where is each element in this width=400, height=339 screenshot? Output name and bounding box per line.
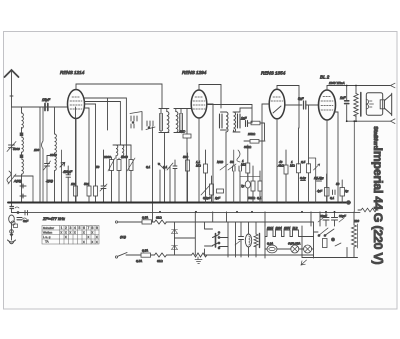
svg-text:BL2: BL2 <box>293 226 298 230</box>
coil L5 <box>116 145 118 158</box>
svg-text:130V 27mA: 130V 27mA <box>329 81 345 85</box>
svg-text:50kΩ: 50kΩ <box>248 196 256 200</box>
value labels texture <box>13 132 359 263</box>
tube V4 BL2 <box>319 75 345 121</box>
power line N <box>115 249 313 264</box>
svg-text:0,5: 0,5 <box>301 160 306 164</box>
trimmer antenna <box>7 142 16 152</box>
svg-text:61Ω: 61Ω <box>157 259 163 263</box>
svg-text:30kΩ: 30kΩ <box>244 145 252 149</box>
svg-text:ZF=477 kHz: ZF=477 kHz <box>42 216 65 221</box>
capacitor 400pF <box>63 166 73 203</box>
svg-text:0,5A: 0,5A <box>136 259 142 263</box>
output transformer T2 <box>354 86 361 122</box>
capacitor 15pF <box>42 98 51 111</box>
coil L4 <box>55 156 57 203</box>
wire V1 anode lines <box>85 107 90 109</box>
ground bus <box>8 202 350 204</box>
switch mains s2 <box>318 228 334 236</box>
svg-text:RENS 1294: RENS 1294 <box>182 70 207 75</box>
svg-text:4μF: 4μF <box>317 189 322 193</box>
resistor R6 <box>127 145 135 203</box>
svg-text:100: 100 <box>71 182 76 186</box>
switch arrow <box>167 163 173 203</box>
misc mid-low resistors <box>204 145 250 203</box>
voltage selector S3 <box>205 212 236 257</box>
svg-text:6: 6 <box>83 226 85 230</box>
resistor R7 <box>186 153 190 203</box>
svg-text:x: x <box>92 231 94 235</box>
wire <box>107 98 109 130</box>
svg-text:0,1μ: 0,1μ <box>300 176 306 180</box>
wire V3 cathode <box>276 119 278 203</box>
wire top to speaker <box>391 83 396 88</box>
svg-text:220: 220 <box>353 219 359 223</box>
svg-text:NSB: NSB <box>217 160 223 164</box>
svg-text:0,1: 0,1 <box>146 165 151 169</box>
wire V3 left <box>262 104 269 203</box>
svg-text:100: 100 <box>34 148 39 152</box>
svg-text:5000: 5000 <box>13 147 20 151</box>
svg-text:15pF: 15pF <box>42 98 51 102</box>
trimmer C8 <box>100 150 107 203</box>
wire V1 grid cap to IFT1 <box>76 84 162 109</box>
electrolytic 32uF a <box>318 212 329 226</box>
svg-text:1294: 1294 <box>276 226 283 230</box>
svg-text:Staßfurt: Staßfurt <box>372 126 378 148</box>
svg-text:L u. g: L u. g <box>43 235 51 239</box>
svg-text:0,1: 0,1 <box>163 165 168 169</box>
coil L2b <box>22 159 24 203</box>
svg-text:x: x <box>83 240 85 244</box>
capacitor 3nF <box>17 218 28 224</box>
resistor 30k <box>244 140 265 144</box>
loudspeaker LS <box>366 93 391 116</box>
wire V2 anode <box>207 104 213 203</box>
svg-text:Imperial 44 G (220 V): Imperial 44 G (220 V) <box>371 148 385 265</box>
tube V1 RENS1214 <box>60 70 85 119</box>
lamp small <box>11 221 15 225</box>
trimmer C2 <box>44 156 55 203</box>
svg-text:0,1: 0,1 <box>330 196 335 200</box>
line filter caps <box>172 222 178 255</box>
svg-text:1214: 1214 <box>267 226 274 230</box>
arrow mark <box>301 260 307 265</box>
power line L <box>115 216 313 225</box>
resistor R4 <box>108 157 115 203</box>
coupling square a <box>20 133 24 137</box>
switch table <box>42 226 99 245</box>
switch A(Sk) <box>7 171 22 184</box>
svg-text:Schalter: Schalter <box>43 226 54 230</box>
wire V3 grid cap <box>277 86 299 129</box>
ground E <box>8 223 16 244</box>
coil L2 <box>22 137 24 155</box>
wire anode loop b <box>85 102 121 146</box>
below bus left: capacitor 1nF <box>10 203 19 213</box>
capacitor selector <box>235 222 244 257</box>
svg-text:7μ: 7μ <box>241 184 245 188</box>
resistor selector <box>254 222 260 257</box>
svg-text:6V/0,35A: 6V/0,35A <box>288 242 300 246</box>
capacitor 5nF <box>298 97 319 109</box>
svg-text:x: x <box>92 240 94 244</box>
svg-text:400pF: 400pF <box>63 170 73 174</box>
dial lamp 1 <box>277 242 300 254</box>
resistor bottom <box>323 238 342 248</box>
right block resistors <box>284 105 350 204</box>
svg-text:3000: 3000 <box>50 153 57 157</box>
svg-text:61Ω: 61Ω <box>156 216 162 220</box>
antenna <box>5 70 19 107</box>
wire row <box>14 175 33 177</box>
svg-text:1: 1 <box>61 226 63 230</box>
IF transformer IFT1 <box>159 109 192 203</box>
svg-text:MΩ: MΩ <box>290 164 295 168</box>
svg-text:0,1: 0,1 <box>257 196 262 200</box>
wire V4 anode top <box>327 86 390 91</box>
resistor R5 <box>117 158 121 202</box>
junction dots on bus <box>11 85 357 213</box>
svg-text:x: x <box>70 231 72 235</box>
svg-text:32μF: 32μF <box>320 214 327 218</box>
wire from bus to mains <box>152 203 154 223</box>
capacitor 1nF output <box>340 86 349 122</box>
svg-text:20kΩ: 20kΩ <box>247 132 256 136</box>
svg-text:8: 8 <box>92 226 94 230</box>
svg-text:50: 50 <box>230 160 234 164</box>
svg-text:0,1μF: 0,1μF <box>203 196 211 200</box>
wire <box>32 176 34 203</box>
wire V4 cathode <box>326 120 328 203</box>
svg-text:AbΩ: AbΩ <box>277 164 285 168</box>
resistor earth R-mains <box>192 253 208 264</box>
field coil <box>245 222 251 257</box>
wire bottom speaker rail <box>347 119 395 212</box>
tube V2 RENS1294 <box>182 70 207 118</box>
dial lamp 2 <box>299 245 314 253</box>
fuse 0.3A <box>265 242 277 253</box>
svg-text:0,3A: 0,3A <box>267 242 273 246</box>
coil L3 <box>55 107 57 156</box>
resistor AVO <box>178 130 191 203</box>
resistor R3 <box>85 104 98 203</box>
electrolytic 32uF b <box>332 212 345 226</box>
terminal <box>10 230 14 234</box>
svg-text:x: x <box>74 231 76 235</box>
svg-text:x: x <box>65 231 67 235</box>
svg-text:AVO: AVO <box>178 130 186 134</box>
heater chain <box>265 222 318 258</box>
svg-text:5000: 5000 <box>121 155 128 159</box>
svg-text:A(Sk): A(Sk) <box>13 179 22 183</box>
resistor R1 <box>74 107 78 203</box>
wire V1 cathode down <box>75 119 77 203</box>
svg-text:7: 7 <box>88 226 90 230</box>
svg-text:2μ: 2μ <box>344 189 349 193</box>
wire AVO <box>186 109 188 135</box>
svg-text:(3Ω): (3Ω) <box>120 235 126 239</box>
capacitor 1nF <box>241 117 248 127</box>
dropper resistor <box>352 212 358 258</box>
bottom rail <box>302 257 358 259</box>
antenna coil L1 <box>12 107 24 203</box>
svg-text:9: 9 <box>96 226 98 230</box>
resistor hum <box>358 208 378 212</box>
svg-text:x: x <box>88 235 90 239</box>
svg-text:3nF: 3nF <box>23 219 28 223</box>
svg-text:3: 3 <box>70 226 72 230</box>
wire V4 screen <box>334 112 338 203</box>
capacitor link <box>12 211 28 216</box>
svg-text:4: 4 <box>74 226 76 230</box>
svg-text:5: 5 <box>79 226 81 230</box>
coil L6 <box>122 145 124 158</box>
wire with tap arrow <box>60 150 65 203</box>
svg-text:3000: 3000 <box>104 155 111 159</box>
svg-text:x: x <box>65 235 67 239</box>
svg-text:x: x <box>83 231 85 235</box>
svg-text:32μF: 32μF <box>339 214 346 218</box>
svg-text:x: x <box>61 231 63 235</box>
svg-text:MΩ: MΩ <box>196 164 201 168</box>
svg-text:1(1,5)μ: 1(1,5)μ <box>314 176 324 180</box>
heater line <box>27 211 361 213</box>
wire coil bar <box>113 144 131 146</box>
IF transformer IFT2 <box>220 108 253 203</box>
svg-text:x: x <box>96 240 98 244</box>
svg-text:1854: 1854 <box>284 226 291 230</box>
wire V2 grid cap <box>199 85 221 109</box>
svg-text:500: 500 <box>84 182 89 186</box>
resistors lower mid <box>251 166 262 203</box>
svg-text:50: 50 <box>96 165 100 169</box>
cap 7uF <box>234 150 260 203</box>
switch contact <box>158 163 165 203</box>
svg-text:500: 500 <box>183 155 188 159</box>
tube V3 RENS1854 <box>261 71 286 119</box>
capacitor C7 <box>173 160 177 203</box>
wire V2 anode to detector <box>207 105 252 124</box>
wire V2 cathode <box>198 119 200 203</box>
wire V3 anode to C coupling <box>285 104 302 106</box>
switch lever 7 <box>42 107 44 203</box>
svg-text:x: x <box>96 235 98 239</box>
coupling square b <box>20 155 24 159</box>
wire antenna to V1 grid <box>12 106 69 108</box>
wire anode loop a <box>85 98 127 203</box>
svg-text:RENS 1854: RENS 1854 <box>261 71 286 76</box>
svg-text:50: 50 <box>336 182 340 186</box>
svg-text:0,5A: 0,5A <box>142 216 148 220</box>
resistor R2 <box>87 108 91 203</box>
resistor 20k <box>248 121 265 140</box>
svg-text:TA: TA <box>45 240 49 244</box>
volume pot <box>201 176 224 203</box>
electrolytic left <box>9 215 15 223</box>
svg-text:2: 2 <box>65 226 67 230</box>
band switch S1 <box>130 112 155 203</box>
svg-text:1μF: 1μF <box>215 196 220 200</box>
svg-text:BL 2: BL 2 <box>320 75 330 80</box>
svg-text:RENS 1214: RENS 1214 <box>60 70 85 75</box>
svg-text:0,5A: 0,5A <box>142 249 148 253</box>
wire heater stub <box>264 212 266 226</box>
switch contact <box>20 184 26 188</box>
svg-text:Wellen: Wellen <box>43 231 52 235</box>
svg-text:MΩ: MΩ <box>241 163 246 167</box>
